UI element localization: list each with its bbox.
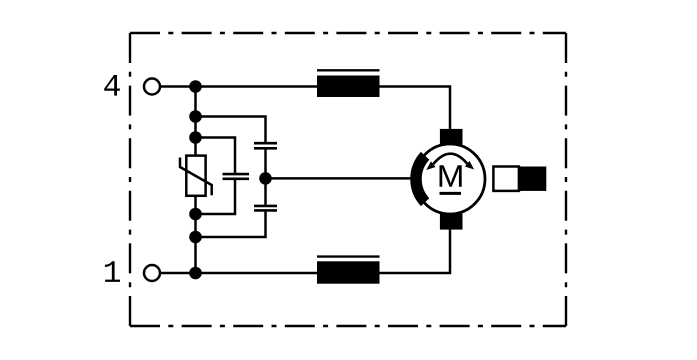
wire left vertical lower xyxy=(194,196,197,273)
enclosure border bottom (dash-dot) xyxy=(130,325,566,327)
terminal pin 1 xyxy=(144,265,160,281)
wire bottom rail xyxy=(161,230,451,273)
terminal label 4 xyxy=(104,75,120,96)
varistor R1 xyxy=(180,156,212,196)
motor commutator arc xyxy=(416,156,425,202)
wire C2 bottom return xyxy=(196,212,266,237)
wire capacitor branch C3 top xyxy=(196,138,236,173)
motor letter M xyxy=(440,165,462,186)
terminal label 1 xyxy=(105,261,120,282)
capacitor C2 xyxy=(254,206,277,211)
wire C1 to node A xyxy=(264,150,267,205)
permanent magnet xyxy=(493,167,546,191)
motor M underline xyxy=(440,192,462,195)
wire node A to motor xyxy=(266,177,412,180)
junction dot top rail xyxy=(189,80,202,93)
junction dot branch C3 xyxy=(189,131,202,144)
wire capacitor branch C1 top xyxy=(196,117,266,143)
capacitor C1 xyxy=(254,143,277,148)
wire C3 bottom return xyxy=(196,180,236,214)
motor M1 brush bottom xyxy=(440,213,463,230)
enclosure border right (dash-dot) xyxy=(565,33,567,326)
junction dot C2 return xyxy=(189,231,202,244)
wire top rail xyxy=(161,87,451,129)
motor M1 body xyxy=(415,144,485,214)
node A junction dot xyxy=(259,172,272,185)
enclosure border top (dash-dot) xyxy=(130,32,566,34)
junction dot C3 return xyxy=(189,208,202,221)
choke L2 xyxy=(317,257,380,284)
junction dot branch C1 xyxy=(189,110,202,123)
rotation arrow xyxy=(426,154,474,170)
motor M1 brush top xyxy=(440,129,463,146)
choke L1 xyxy=(317,70,380,97)
terminal pin 4 xyxy=(144,79,160,95)
capacitor C3 xyxy=(223,174,250,179)
wire left vertical upper xyxy=(194,87,197,156)
junction dot bottom rail xyxy=(189,267,202,280)
enclosure border left (dash-dot) xyxy=(129,33,131,326)
